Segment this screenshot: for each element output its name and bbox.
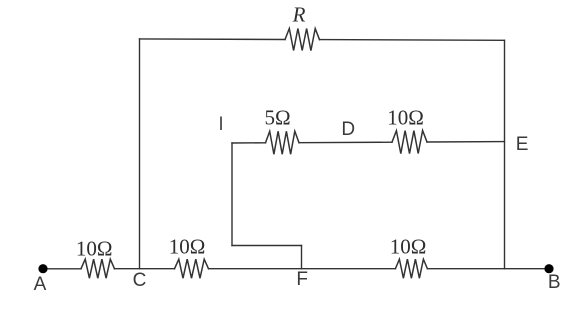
wire: bottom, between first and second resistors through node C (115, 268, 175, 270)
wire: bottom, from second resistor through node F to third resistor (209, 268, 396, 270)
wire: horizontal jog toward node F (232, 245, 302, 247)
label 10 ohm bottom-middle (169, 234, 206, 259)
resistor 10 ohm (C-F) (175, 259, 209, 278)
wire: bottom, node A to first resistor (45, 268, 81, 270)
resistor R (285, 29, 320, 51)
wire: middle branch between 5-ohm and 10-ohm (node D) (299, 141, 392, 144)
wire: short vertical into node F on bottom wire (301, 246, 303, 269)
wire: top left segment from C-riser to resistor R (140, 38, 286, 41)
label 10 ohm bottom-left (76, 236, 113, 261)
label 5 ohm (264, 105, 290, 130)
node D label (341, 119, 355, 141)
wire: middle branch horizontal, left stub to 5-ohm resistor (232, 142, 266, 144)
resistor 10 ohm (A-C) (81, 259, 115, 278)
wire: vertical drop from middle branch start down toward F (231, 143, 233, 246)
label 10 ohm bottom-right (390, 235, 427, 260)
node C label (133, 270, 147, 292)
resistor 10 ohm (middle branch) (392, 131, 427, 154)
label 10 ohm middle (387, 105, 424, 130)
resistor 5 ohm (266, 131, 300, 154)
node A label (34, 274, 47, 296)
wire: top right segment from R to right riser (320, 39, 505, 42)
wire: bottom, from third resistor to node B (427, 268, 549, 270)
wire: left vertical riser from node C to top wire (139, 39, 141, 269)
resistor 10 ohm (F-B) (395, 259, 427, 278)
label I (current) (218, 114, 223, 136)
node B label (548, 272, 561, 294)
node A terminal dot (38, 264, 47, 273)
wire: middle branch from 10-ohm to node E (427, 141, 505, 143)
wire: right vertical riser from top wire through node E to bottom wire (504, 40, 506, 268)
label R (293, 2, 306, 27)
node F label (296, 269, 308, 291)
node B terminal dot (544, 264, 553, 273)
node E label (516, 134, 529, 156)
